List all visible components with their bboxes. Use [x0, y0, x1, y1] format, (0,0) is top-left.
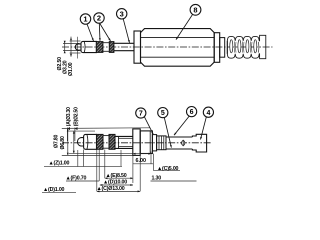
step	[152, 135, 156, 151]
cylinder	[166, 136, 192, 138]
dim line B drop	[74, 128, 76, 142]
extension line barrel bottom	[69, 152, 133, 154]
svg-text:▲(C)Ø13.00: ▲(C)Ø13.00	[97, 186, 125, 192]
callout 5	[158, 108, 168, 118]
svg-text:7: 7	[139, 111, 143, 118]
svg-text:Ø1.00: Ø1.00	[68, 62, 74, 76]
extension line bottom	[70, 52, 81, 54]
shaft bottom	[115, 135, 133, 137]
extension line flange bottom	[62, 154, 133, 156]
extension line flange top	[62, 127, 150, 130]
boot neck	[220, 38, 225, 58]
bellows oval 4	[254, 40, 257, 53]
cylinder center detail	[182, 141, 185, 146]
dim line d6.80	[73, 131, 75, 153]
extension line top	[70, 40, 81, 42]
svg-text:▲(Z)1.00: ▲(Z)1.00	[49, 161, 70, 167]
plug nub bottom	[77, 138, 83, 146]
bellows oval 3	[246, 40, 249, 53]
extension line barrel top	[69, 130, 95, 132]
svg-text:▲(B)Ø2.50: ▲(B)Ø2.50	[74, 107, 80, 131]
bellows valley pinches	[234, 42, 236, 53]
centerline top view	[62, 46, 273, 48]
svg-text:4: 4	[206, 110, 210, 117]
svg-text:6: 6	[190, 109, 194, 116]
insulator ring 2	[109, 42, 114, 53]
hex flat line lower	[141, 56, 214, 58]
svg-text:▲(F)0.70: ▲(F)0.70	[66, 175, 87, 181]
dimension line d1.00	[70, 37, 72, 57]
plug tip nub	[75, 44, 81, 50]
hex flat line upper	[141, 36, 214, 38]
dim line A drop	[66, 128, 68, 142]
barrel	[140, 131, 152, 154]
leader arrowheads	[92, 38, 94, 41]
dim line d7.80	[67, 129, 69, 156]
svg-text:1: 1	[83, 15, 87, 24]
shaft	[114, 42, 134, 44]
insulator ring 1	[96, 42, 103, 53]
tip groove bottom	[86, 135, 89, 150]
collar right	[214, 33, 220, 63]
dim 6.00	[133, 153, 151, 155]
insulator ring 1 bottom	[97, 134, 104, 149]
bellows oval 1	[230, 40, 233, 53]
callout 2	[94, 13, 104, 23]
svg-text:Ø6.80: Ø6.80	[60, 136, 66, 149]
svg-text:▲(A)Ø3.30: ▲(A)Ø3.30	[66, 107, 72, 131]
extension line shaft top	[63, 42, 80, 44]
centerline bottom view	[62, 142, 211, 144]
callout 1	[80, 14, 90, 24]
svg-text:2: 2	[97, 14, 101, 23]
extension line shaft bottom	[63, 50, 80, 52]
bellows outline	[227, 35, 265, 58]
ribbed collar	[157, 136, 166, 150]
bellows oval 2	[238, 40, 241, 53]
plug tip body	[81, 41, 97, 52]
callout 6	[187, 107, 197, 117]
tip groove arc	[83, 42, 86, 53]
dimension line d3.20	[64, 42, 66, 52]
svg-text:6.00: 6.00	[136, 158, 147, 164]
ring gap	[103, 42, 109, 44]
svg-text:Ø7.80: Ø7.80	[54, 135, 60, 148]
hex body	[141, 29, 215, 67]
bottom dimension verticals	[77, 150, 79, 167]
callout 3	[117, 9, 127, 19]
svg-text:8: 8	[193, 6, 197, 15]
svg-text:5: 5	[161, 110, 165, 117]
callout 4	[203, 107, 213, 117]
callout 7	[136, 108, 146, 118]
insulator ring 2 bottom	[109, 134, 115, 149]
end block	[192, 134, 206, 152]
svg-text:▲(D)10.00: ▲(D)10.00	[103, 179, 127, 185]
extension line nub face	[77, 37, 79, 59]
bellows left bar	[226, 41, 228, 54]
callout 8	[190, 4, 201, 15]
svg-text:3: 3	[120, 10, 124, 19]
plug tip body bottom	[84, 134, 97, 149]
flange	[133, 129, 140, 156]
ring gap bottom	[103, 135, 109, 137]
collar left	[134, 31, 141, 63]
